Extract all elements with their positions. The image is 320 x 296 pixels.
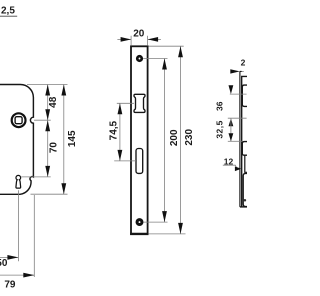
screw hole bottom — [136, 218, 144, 226]
dim 2 arrow — [230, 69, 240, 73]
dim 79 line — [0, 274, 34, 276]
svg-text:50: 50 — [0, 258, 8, 269]
faceplate front edge line — [240, 71, 242, 207]
dim 2,5 line — [0, 15, 17, 17]
svg-text:36: 36 — [215, 101, 225, 111]
dim 20 arrow left — [121, 37, 132, 42]
bolt head rect — [242, 142, 247, 156]
dim 79 arrow — [23, 273, 34, 278]
dim 145 arrow down — [61, 183, 66, 194]
ext line case edge down to 79 dim — [33, 195, 35, 277]
svg-text:32,5: 32,5 — [214, 120, 224, 139]
dim 32,5 arrow down — [229, 133, 234, 141]
dim 20 line left — [117, 38, 131, 40]
lower cavity rect — [243, 173, 247, 206]
screw dot in lower cavity — [244, 199, 247, 202]
case outline — [242, 76, 247, 207]
dim 20 line right — [148, 38, 161, 40]
case bottom edge — [240, 206, 247, 208]
latch cavity rect — [242, 85, 247, 106]
svg-text:2: 2 — [241, 57, 246, 67]
svg-text:74,5: 74,5 — [108, 120, 119, 140]
svg-text:2,5: 2,5 — [1, 5, 15, 16]
spindle hole outer circle — [12, 113, 26, 127]
ext line 36 top — [230, 93, 247, 95]
latch cutout — [134, 94, 145, 112]
ext line plate bottom — [149, 233, 186, 235]
ext line 36/32,5 shared — [228, 117, 247, 119]
dim 48 arrow down — [45, 109, 50, 120]
ext line screw bottom — [143, 221, 167, 223]
dim 74,5 arrow down — [118, 150, 123, 161]
keyhole — [16, 175, 21, 188]
dim 20 arrow right — [148, 37, 159, 42]
dim 230 arrow down — [178, 223, 183, 234]
dim 74,5 arrow up — [118, 103, 123, 114]
dim 36 arrow top (outside, pointing down) — [229, 85, 234, 94]
case outline — [0, 85, 33, 195]
dim 74,5 line — [119, 103, 121, 161]
svg-text:48: 48 — [48, 96, 59, 108]
ext line spindle axis — [34, 119, 51, 121]
svg-text:70: 70 — [49, 142, 60, 154]
dim 200 arrow down — [162, 211, 167, 222]
dim 145 arrow up — [61, 85, 66, 96]
dim 48 line — [47, 85, 49, 121]
ext line top edge — [27, 84, 68, 86]
svg-text:145: 145 — [67, 130, 78, 147]
ext line plate top — [149, 45, 184, 47]
ext line plate right — [147, 36, 149, 45]
dim 48 arrow up — [45, 85, 50, 96]
dim 200 line — [164, 59, 166, 223]
dim 230 arrow up — [178, 46, 183, 57]
dim 70 line — [47, 120, 49, 177]
dim 50 line — [0, 256, 18, 258]
ext line keyhole down to 50 dim — [17, 190, 19, 261]
ext line plate left — [130, 36, 132, 45]
dim 2 line — [240, 70, 244, 72]
dim 12 arrow — [235, 167, 242, 172]
svg-text:230: 230 — [184, 129, 195, 146]
dim 12 leader — [223, 165, 237, 169]
spindle hole inner square — [15, 117, 22, 124]
ext line 32,5 bottom — [228, 140, 242, 142]
ext line latch axis — [117, 102, 134, 104]
deadbolt cutout — [136, 149, 143, 174]
svg-text:79: 79 — [4, 279, 16, 290]
dim 32,5 arrow up — [229, 118, 234, 126]
dim 70 arrow down — [45, 166, 50, 177]
svg-text:200: 200 — [169, 129, 180, 146]
dim 32,5 line — [230, 118, 232, 141]
dim 50 arrow — [7, 255, 18, 260]
dim 200 arrow up — [162, 59, 167, 70]
faceplate outline — [131, 46, 148, 234]
screw hole top — [136, 55, 143, 62]
ext line bolt axis — [114, 160, 136, 162]
ext line keyhole axis — [21, 176, 51, 178]
dim 145 line — [63, 85, 65, 195]
dim 230 line — [180, 46, 182, 234]
ext line case bottom — [31, 193, 68, 195]
dim 70 arrow up — [45, 120, 50, 131]
bolt body lines — [245, 155, 247, 172]
ext line screw top — [143, 58, 167, 60]
svg-text:20: 20 — [133, 28, 145, 39]
faceplate bottom thick edge — [130, 233, 148, 235]
